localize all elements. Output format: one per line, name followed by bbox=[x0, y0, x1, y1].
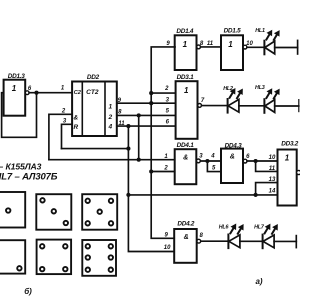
die face 3 bbox=[36, 194, 71, 230]
LED HL6 bbox=[219, 224, 243, 248]
die face 1 bbox=[0, 192, 25, 228]
LED HL1 bbox=[255, 28, 279, 54]
wire DD4.2 output to HL6 bbox=[201, 240, 229, 242]
node junction F bbox=[137, 158, 141, 162]
svg-text:а): а) bbox=[255, 277, 262, 286]
svg-text:DD1.5: DD1.5 bbox=[224, 28, 242, 35]
wire HL7 to edge bbox=[274, 240, 296, 242]
svg-text:DD4.3: DD4.3 bbox=[225, 142, 243, 149]
svg-text:&: & bbox=[184, 234, 189, 241]
die face 2 bbox=[0, 240, 25, 273]
svg-text:1: 1 bbox=[285, 153, 290, 162]
node junction D bbox=[126, 124, 130, 128]
gate DD4.3 bbox=[221, 142, 250, 183]
svg-text:13: 13 bbox=[269, 177, 276, 183]
svg-text:R: R bbox=[74, 124, 79, 131]
svg-text:– К155ЛА3: – К155ЛА3 bbox=[0, 161, 42, 171]
svg-text:DD4.2: DD4.2 bbox=[177, 221, 195, 228]
svg-text:C2: C2 bbox=[74, 90, 82, 96]
wire DD2 pin3 input bbox=[62, 124, 73, 148]
wire DD2 output 4 (pin 11) to DD3.1 pin6 bbox=[117, 125, 176, 127]
wire DD2 output 1 (pin 9) to DD3.1 pin3 bbox=[117, 102, 176, 104]
svg-text:DD2: DD2 bbox=[87, 74, 100, 81]
LED HL2 bbox=[223, 86, 242, 113]
gate DD3.1 bbox=[164, 74, 205, 139]
svg-text:DD3.2: DD3.2 bbox=[281, 140, 299, 147]
svg-text:DD1.4: DD1.4 bbox=[176, 28, 194, 35]
node junction H bbox=[126, 193, 130, 197]
wire HL2 to HL3 bbox=[239, 105, 265, 107]
node HL3 wire end tick bbox=[298, 100, 300, 112]
wire DD3.1 output to HL2 bbox=[202, 105, 228, 107]
svg-text:10: 10 bbox=[164, 245, 171, 251]
svg-text:НL7 – АЛ307Б: НL7 – АЛ307Б bbox=[0, 171, 58, 182]
node HL1 wire end tick bbox=[297, 40, 299, 54]
svg-text:DD4.1: DD4.1 bbox=[177, 142, 195, 149]
svg-text:2: 2 bbox=[107, 114, 112, 121]
svg-text:&: & bbox=[183, 155, 188, 162]
svg-text:DD3.1: DD3.1 bbox=[177, 74, 195, 81]
node DD4.1 output junction bbox=[205, 159, 209, 163]
svg-text:1: 1 bbox=[184, 86, 189, 95]
svg-text:1: 1 bbox=[12, 84, 17, 93]
gate DD4.2 bbox=[164, 221, 204, 263]
gate DD1.3 bbox=[4, 73, 32, 116]
svg-text:HL7: HL7 bbox=[254, 225, 265, 231]
LED HL3 bbox=[255, 85, 279, 113]
gate DD1.4 bbox=[166, 28, 213, 70]
gate DD3.2 bbox=[269, 140, 301, 205]
wire vertical out4 down to DD4.2 pin10 bbox=[128, 126, 174, 251]
wire HL1 to edge bbox=[275, 47, 298, 49]
die face 4 bbox=[37, 240, 72, 275]
wire bus to DD3.2 pins 13,14 bbox=[128, 194, 277, 196]
wire DD1.4 output to DD1.5 bbox=[201, 46, 221, 48]
node DD1.3 output junction bbox=[34, 91, 38, 95]
wire branch to DD4.1 pin2 bbox=[151, 171, 175, 173]
wire DD4.3 output to DD3.2 pin10 bbox=[247, 160, 277, 162]
wire DD1.3 output to DD2 pin1 bbox=[29, 92, 72, 94]
wire DD1.5 output to HL1 bbox=[247, 46, 264, 48]
wire DD2 pin2 input bbox=[49, 114, 72, 159]
die face 6 bbox=[82, 240, 116, 276]
wire branch to DD3.2 pin11 bbox=[256, 161, 278, 171]
svg-text:1: 1 bbox=[228, 40, 233, 49]
node DD4.3 output junction bbox=[254, 159, 258, 163]
svg-text:10: 10 bbox=[246, 41, 253, 47]
svg-text:11: 11 bbox=[269, 166, 276, 172]
wire vertical out2 to DD4.1 pin1 bbox=[138, 115, 140, 159]
LED HL7 bbox=[254, 225, 277, 249]
node bus junction pins 13-14 bbox=[254, 193, 258, 197]
svg-text:1: 1 bbox=[183, 40, 188, 49]
svg-text:10: 10 bbox=[269, 155, 276, 161]
node HL7 wire end tick bbox=[295, 236, 297, 248]
wire DD2 output 2 (pin 8) to DD3.1 pin5 bbox=[117, 114, 176, 116]
svg-text:CT2: CT2 bbox=[86, 89, 99, 96]
svg-text:2: 2 bbox=[163, 166, 168, 172]
svg-text:1: 1 bbox=[108, 103, 112, 110]
counter DD2 bbox=[72, 74, 117, 136]
svg-text:&: & bbox=[230, 154, 235, 161]
wire branch to DD4.3 pin5 bbox=[207, 161, 221, 172]
svg-text:HL6: HL6 bbox=[219, 225, 230, 231]
node junction B bbox=[149, 101, 153, 105]
wire reset feedback bbox=[62, 148, 129, 150]
node junction A bbox=[149, 91, 153, 95]
wire HL6 to HL7 bbox=[240, 240, 263, 242]
svg-text:4: 4 bbox=[107, 123, 112, 130]
node junction G bbox=[149, 169, 153, 173]
svg-text:2: 2 bbox=[164, 86, 169, 92]
svg-text:DD1.3: DD1.3 bbox=[8, 73, 26, 80]
node junction C bbox=[137, 113, 141, 117]
wire branch to DD3.1 pin2 bbox=[151, 92, 175, 94]
svg-text:&: & bbox=[74, 115, 79, 122]
svg-text:4: 4 bbox=[210, 153, 215, 159]
svg-text:14: 14 bbox=[269, 188, 276, 194]
wire DD1.3 feedback loop bbox=[2, 93, 37, 138]
svg-text:б): б) bbox=[24, 287, 32, 296]
node junction E bbox=[126, 147, 130, 151]
die face 5 bbox=[82, 194, 117, 230]
svg-text:HL3: HL3 bbox=[255, 85, 265, 91]
wire DD4.1 output to DD4.3 pin4 bbox=[200, 160, 221, 162]
wire DD3.2 pin13 input bbox=[256, 183, 278, 195]
gate DD4.1 bbox=[163, 142, 203, 184]
wire DD4.1 pin1 input bbox=[49, 159, 175, 161]
svg-text:HL1: HL1 bbox=[255, 28, 265, 34]
wire HL3 to edge bbox=[275, 105, 299, 107]
gate DD1.5 bbox=[221, 28, 253, 71]
wire bus vertical (out1 net) bbox=[151, 47, 175, 238]
